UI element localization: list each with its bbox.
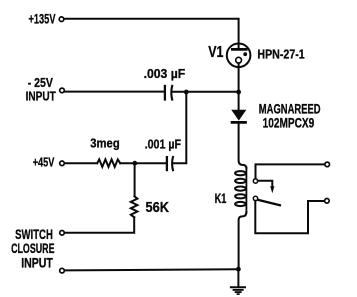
- wire -25V to C1: [65, 91, 164, 93]
- terminal switch closure upper: [60, 231, 65, 236]
- svg-text:V1: V1: [208, 44, 224, 61]
- svg-text:102MPCX9: 102MPCX9: [263, 115, 315, 130]
- terminal NC: [325, 199, 330, 204]
- actuation arrow: [258, 181, 275, 193]
- wire +135V to V1 plate: [65, 19, 239, 49]
- svg-text:SWITCH: SWITCH: [15, 227, 53, 242]
- resistor R2 56K: [131, 196, 138, 217]
- svg-text:+135V: +135V: [29, 10, 56, 26]
- terminal switch closure lower: [60, 268, 65, 273]
- terminal +135V: [59, 17, 64, 22]
- diode CR1 triangle: [232, 110, 245, 120]
- svg-text:CLOSURE: CLOSURE: [11, 241, 54, 256]
- svg-text:INPUT: INPUT: [21, 255, 53, 270]
- diode CR1 cathode bar: [231, 121, 247, 124]
- svg-text:MAGNAREED: MAGNAREED: [259, 102, 321, 117]
- wire coil K1 bottom hook to node D: [239, 212, 247, 269]
- capacitor C2 .001uF: [167, 156, 173, 171]
- wire node D to ground: [237, 269, 239, 286]
- svg-text:HPN-27-1: HPN-27-1: [257, 47, 304, 62]
- svg-text:.001 µF: .001 µF: [145, 136, 181, 151]
- relay armature arm: [258, 200, 281, 206]
- op-amp? no: triode V1 plate bar: [231, 48, 248, 51]
- wire node B down to C2 output: [174, 93, 187, 163]
- relay coil K1 right bar: [245, 167, 247, 214]
- relay coil K1 loop 1: [235, 171, 246, 175]
- wire contact 2 to NC terminal: [255, 201, 324, 233]
- wire node A to diode: [238, 93, 240, 110]
- wire C1 to node A: [173, 91, 237, 93]
- node D junction dot: [236, 267, 241, 272]
- svg-text:3meg: 3meg: [90, 135, 119, 150]
- node C junction dot: [132, 161, 137, 166]
- resistor R1 3meg: [97, 159, 120, 167]
- relay coil K1 loop 3: [235, 187, 246, 191]
- tube V1 cathode circle: [236, 57, 242, 63]
- svg-text:K1: K1: [215, 190, 227, 206]
- svg-text:.003 µF: .003 µF: [144, 66, 186, 81]
- wire lower input to node D: [65, 269, 238, 270]
- ground: [230, 287, 246, 294]
- relay contact pivot 2: [253, 196, 257, 200]
- terminal -25V input: [60, 88, 65, 93]
- node A junction dot: [236, 90, 241, 95]
- relay coil K1 loop 5: [235, 202, 246, 206]
- wire R2 to switch closure upper terminal: [65, 217, 134, 233]
- tube V1 envelope: [227, 44, 251, 68]
- relay coil K1 loop 4: [235, 194, 246, 198]
- tube V1 gas dot: [243, 52, 247, 56]
- relay contact pivot 1: [253, 179, 257, 183]
- wire contact 1 to NO terminal: [256, 164, 325, 178]
- node B junction dot: [184, 90, 189, 95]
- wire V1 cathode to node A: [238, 63, 240, 92]
- svg-text:INPUT: INPUT: [26, 89, 56, 104]
- wire R1 to node C: [120, 162, 166, 164]
- wire node C to R2: [134, 164, 136, 196]
- wire diode to coil K1 top hook: [239, 123, 247, 169]
- wire +45V to R1: [65, 162, 97, 164]
- capacitor C1 .003uF: [165, 85, 173, 101]
- svg-text:56K: 56K: [146, 200, 170, 216]
- relay coil K1 loop 2: [235, 179, 246, 183]
- terminal +45V: [60, 161, 65, 166]
- terminal NO: [325, 162, 330, 167]
- svg-text:+45V: +45V: [33, 155, 55, 170]
